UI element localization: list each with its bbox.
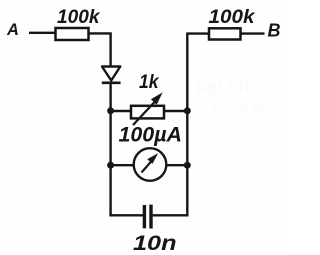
junction dot left (1k row) <box>107 107 114 114</box>
faint watermark show-through <box>196 80 268 115</box>
wire left vertical lower segment <box>109 111 111 217</box>
potentiometer 1k body <box>131 106 164 119</box>
svg-text:10n: 10n <box>133 232 177 255</box>
wire A to R1 <box>29 32 56 34</box>
svg-text:RELATIO: RELATIO <box>196 80 261 97</box>
wire R2 to B <box>241 32 265 34</box>
resistor 100k (left) body <box>56 28 89 40</box>
diode D1 cathode bar <box>102 82 121 85</box>
capacitor C1 left plate <box>143 205 146 228</box>
wire bottom right <box>153 214 189 216</box>
meter M1 body <box>134 148 167 181</box>
wire meter to right junction <box>166 164 187 166</box>
potentiometer 1k arrow <box>133 92 163 125</box>
junction dot right (meter row) <box>184 162 191 169</box>
wire right vertical <box>186 34 188 217</box>
meter M1 needle arrow <box>142 153 159 172</box>
junction dot left (meter row) <box>107 162 114 169</box>
wire bottom left <box>110 214 144 216</box>
node B wire <box>186 32 209 34</box>
wire junction to pot <box>111 110 132 112</box>
wire left vertical upper segment <box>109 33 111 67</box>
svg-text:A: A <box>6 21 19 39</box>
resistor 100k (right) body <box>209 28 241 39</box>
svg-text:AT THE CU: AT THE CU <box>210 103 268 115</box>
wire pot to right vertical <box>164 110 187 112</box>
junction dot right (1k row) <box>184 107 191 114</box>
svg-text:100k: 100k <box>209 6 256 28</box>
svg-text:100µA: 100µA <box>119 124 183 147</box>
svg-text:100k: 100k <box>57 6 101 28</box>
wire diode to junction <box>109 83 111 111</box>
capacitor C1 right plate <box>149 205 152 229</box>
svg-text:1k: 1k <box>139 71 160 93</box>
diode D1 (anode triangle) <box>102 67 120 81</box>
svg-text:B: B <box>268 21 281 41</box>
wire R1 to left vertical <box>89 32 112 34</box>
wire left junction to meter <box>111 164 134 166</box>
